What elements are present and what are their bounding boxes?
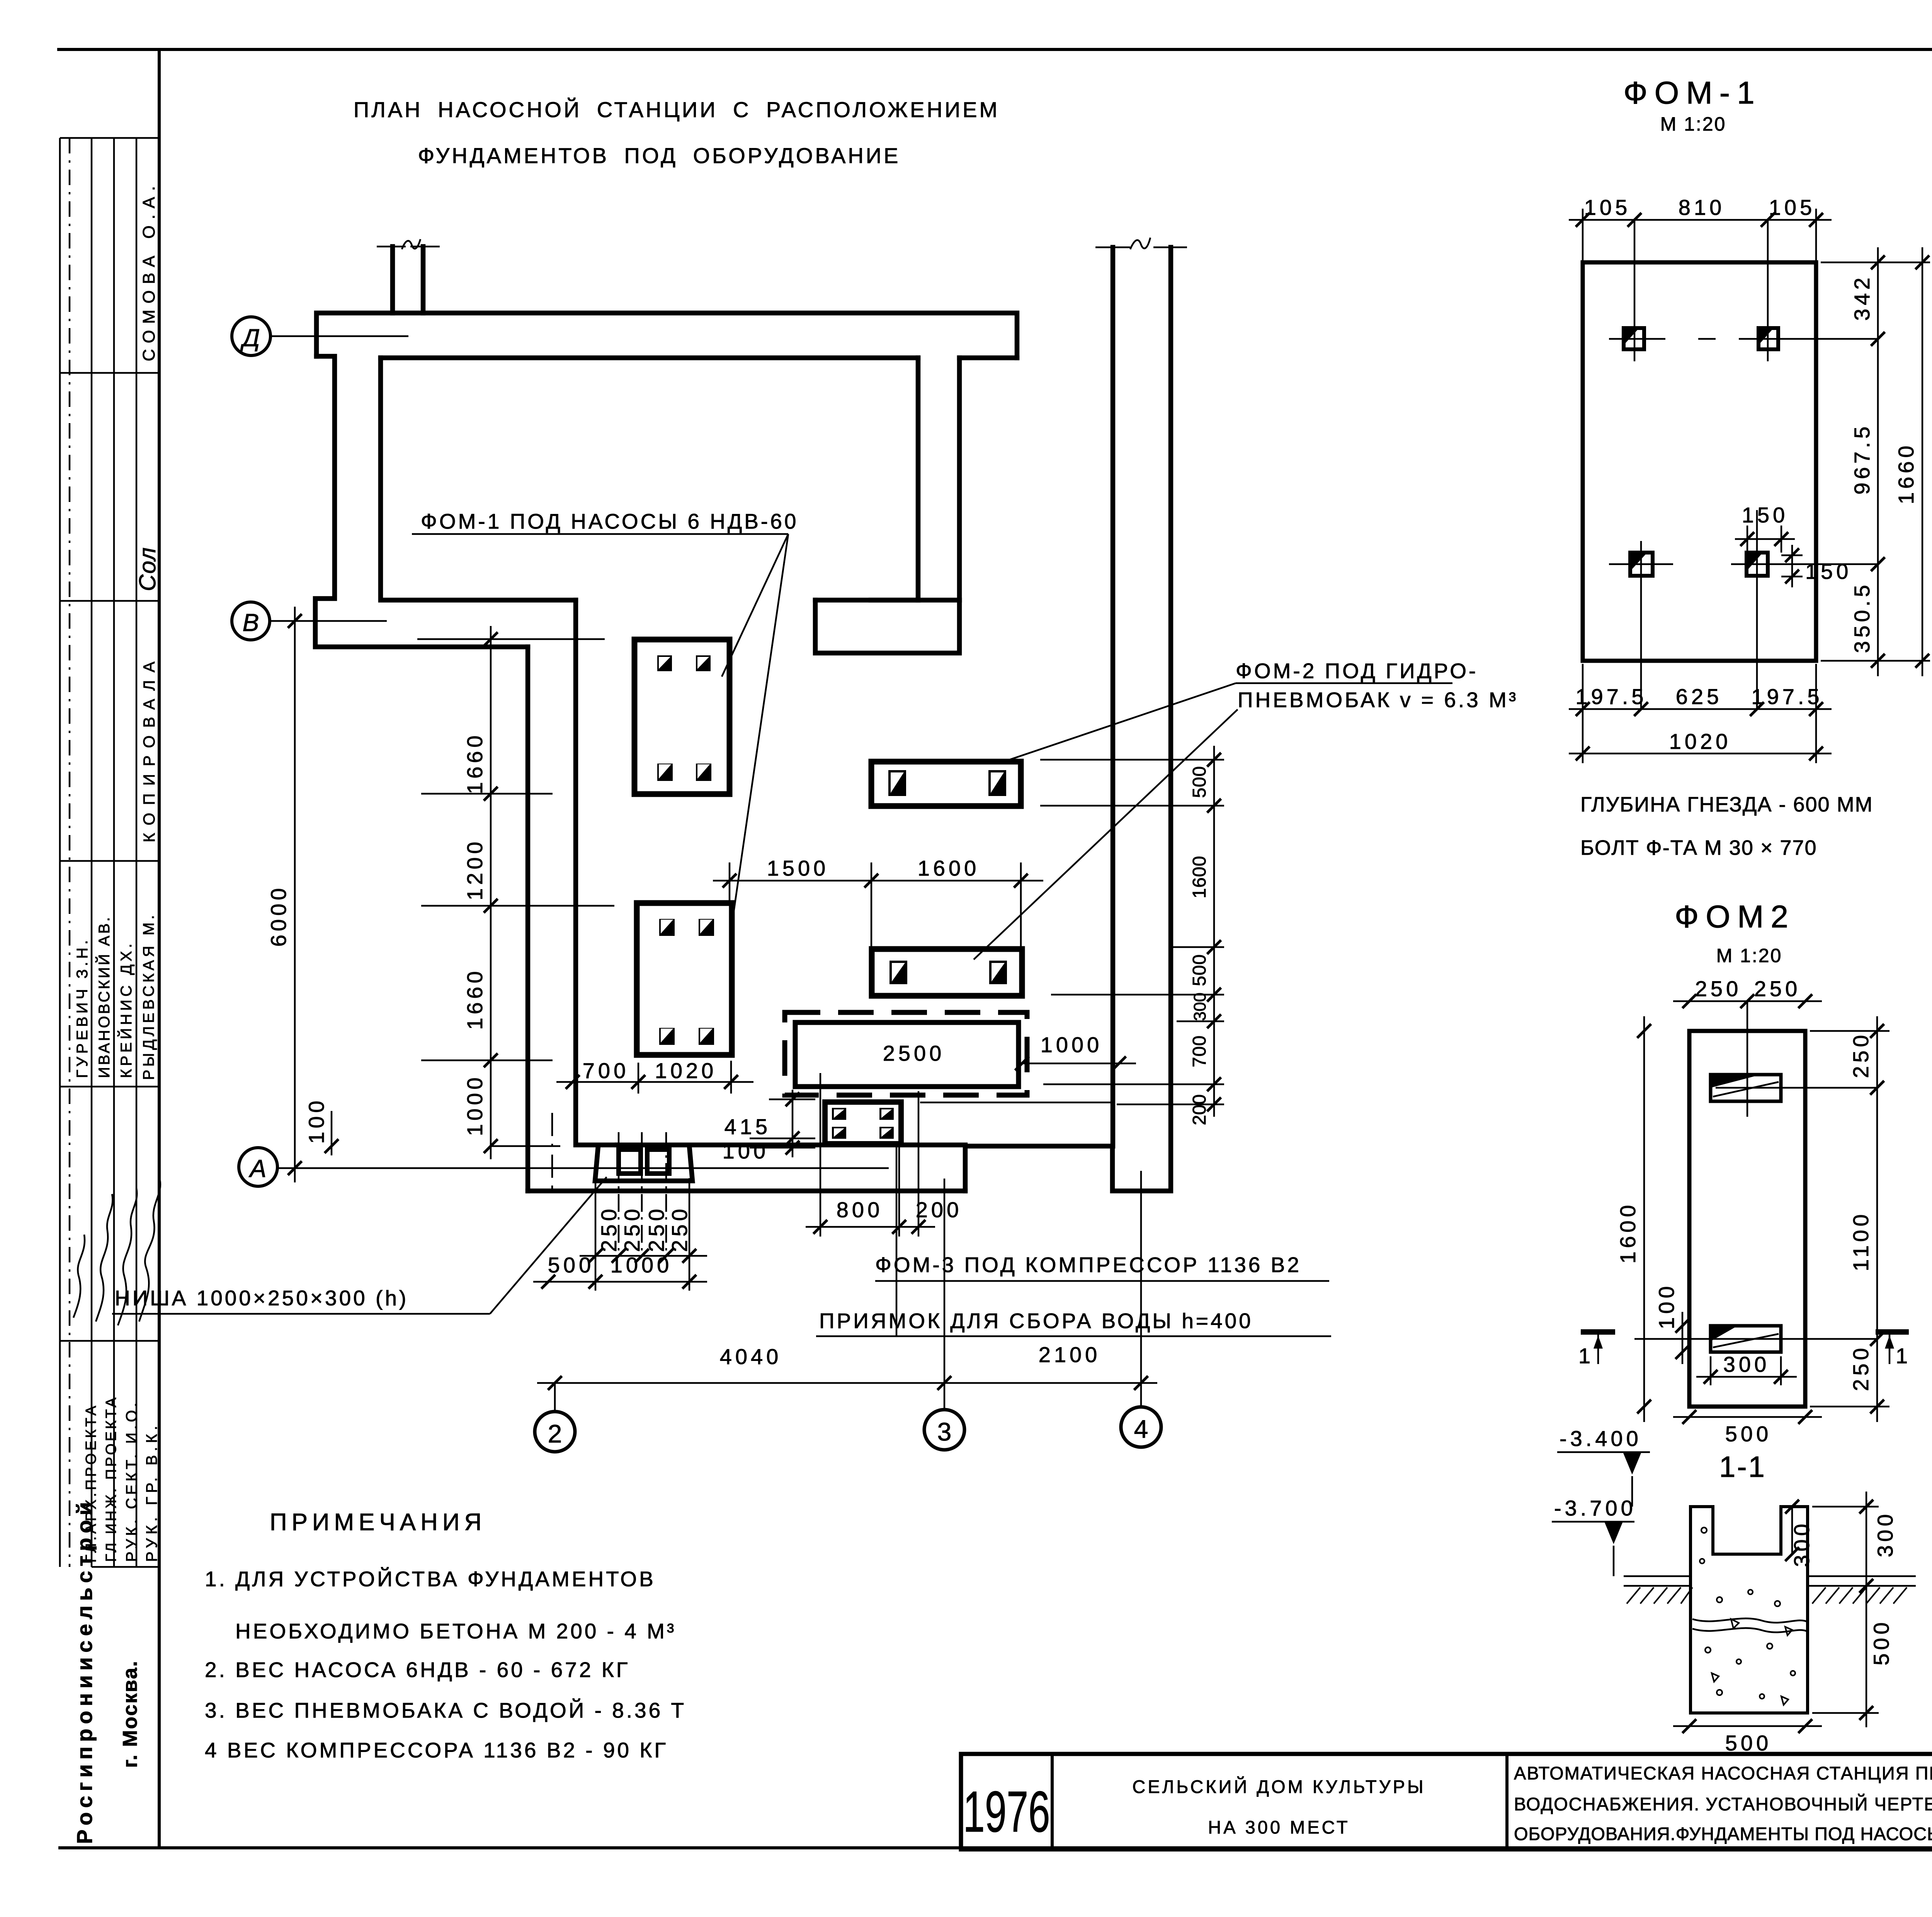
small 100 tick at axis A wall (331, 1111, 333, 1155)
svg-text:300: 300 (1723, 1352, 1770, 1376)
6000 chain (B to A) (294, 607, 296, 1182)
svg-text:300: 300 (1789, 1521, 1814, 1567)
svg-text:3: 3 (937, 1417, 952, 1446)
break squiggle inside (1692, 1618, 1806, 1623)
svg-text:200: 200 (1189, 1094, 1210, 1125)
svg-text:1: 1 (1578, 1344, 1594, 1368)
bolt axis lines top (1609, 338, 1665, 340)
bolt top-left (1624, 328, 1644, 349)
niche square 2 (647, 1150, 669, 1174)
left inner chain 1660/1200/1660/1000 (490, 626, 492, 1159)
svg-text:1660: 1660 (1894, 442, 1918, 504)
bottom 500 dim (1673, 1725, 1822, 1727)
svg-text:1500: 1500 (767, 856, 829, 880)
svg-text:100: 100 (304, 1097, 328, 1144)
svg-text:150: 150 (1742, 503, 1788, 527)
main rect (1689, 1031, 1805, 1407)
middle wall band (column 3 zone) left line (916, 358, 921, 600)
niche square 1 (619, 1150, 641, 1174)
svg-text:Д: Д (240, 324, 260, 352)
svg-text:415: 415 (724, 1114, 771, 1139)
svg-text:СЕЛЬСКИЙ ДОМ КУЛЬТУРЫ: СЕЛЬСКИЙ ДОМ КУЛЬТУРЫ (1132, 1776, 1425, 1797)
column axis circle 3 (924, 1410, 964, 1450)
foundation FOM-1 block A (634, 640, 730, 794)
dim 150 at bottom-right bolt (1747, 526, 1748, 553)
svg-text:КРЕЙНИС ДХ.: КРЕЙНИС ДХ. (117, 941, 135, 1078)
top dim chain 105 810 105 (1569, 219, 1832, 221)
doorway recess at axis A (965, 247, 1171, 1191)
bolt axis lines bottom (1609, 563, 1673, 565)
pit ledge line (920, 1102, 1114, 1104)
svg-text:500: 500 (1725, 1422, 1772, 1446)
right chain 250/1100/250 (1876, 1016, 1878, 1422)
outer chain 1660 (1922, 247, 1923, 676)
svg-text:А: А (248, 1155, 267, 1182)
break squiggle pilaster (402, 239, 420, 249)
svg-text:350.5: 350.5 (1850, 582, 1874, 653)
wall pier column2 band left line (526, 647, 531, 1191)
svg-text:ФОМ-1: ФОМ-1 (1623, 75, 1761, 111)
svg-text:1100: 1100 (1849, 1211, 1873, 1271)
svg-text:1000: 1000 (463, 1074, 487, 1136)
svg-text:500: 500 (1189, 954, 1210, 986)
svg-text:1660: 1660 (463, 732, 487, 794)
svg-text:2: 2 (548, 1419, 562, 1448)
4040 2100 chain (537, 1382, 1157, 1384)
svg-text:4 ВЕС КОМПРЕССОРА 1136: 4 ВЕС КОМПРЕССОРА 1136 В2 - 90 КГ (205, 1738, 668, 1762)
top dim 250 250 (1673, 1000, 1822, 1002)
svg-text:ПЛАН НАСОСНОЙ СТАНЦИИ С: ПЛАН НАСОСНОЙ СТАНЦИИ С РАСПОЛОЖЕНИЕМ (354, 97, 1000, 122)
top wall inner edge left part (381, 356, 918, 361)
niche footing trapezoid (595, 1146, 692, 1181)
pit inner solid rectangle 2500 (795, 1022, 1019, 1087)
svg-text:КОПИРОВАЛА: КОПИРОВАЛА (140, 654, 158, 842)
foundation body below (1689, 1573, 1692, 1713)
svg-text:800: 800 (837, 1197, 883, 1222)
svg-text:500: 500 (548, 1253, 594, 1277)
top wall band outer edge (axis Д) (316, 313, 1017, 358)
main slab rectangle (1583, 262, 1816, 661)
700 1020 chain (556, 1081, 753, 1083)
svg-text:Сол: Сол (134, 547, 160, 591)
svg-text:НЕОБХОДИМО БЕТОНА М 200: НЕОБХОДИМО БЕТОНА М 200 - 4 М³ (235, 1619, 676, 1643)
left wall outer edge with pilaster steps (315, 356, 528, 647)
svg-text:Росгипрониисельстрой: Росгипрониисельстрой (72, 1497, 97, 1844)
svg-text:ФОМ-1 ПОД НАСОСЫ 6 НДВ-60: ФОМ-1 ПОД НАСОСЫ 6 НДВ-60 (421, 509, 798, 533)
TITLE BLOCK (961, 1754, 1932, 1891)
svg-text:3. ВЕС ПНЕВМОБАКА С ВОДО: 3. ВЕС ПНЕВМОБАКА С ВОДОЙ - 8.36 Т (205, 1698, 686, 1722)
left inner border (thick) (158, 49, 161, 1848)
concrete dots (1700, 1527, 1795, 1705)
top border (59, 48, 1932, 51)
svg-text:625: 625 (1676, 684, 1722, 709)
lower slot (1711, 1326, 1781, 1352)
svg-text:ПРИМЕЧАНИЯ: ПРИМЕЧАНИЯ (270, 1509, 486, 1536)
svg-text:ПРИЯМОК ДЛЯ СБОРА ВОДЫ h=4: ПРИЯМОК ДЛЯ СБОРА ВОДЫ h=400 (819, 1309, 1253, 1333)
svg-text:250: 250 (1695, 976, 1742, 1001)
svg-text:197.5: 197.5 (1575, 684, 1647, 709)
svg-text:250: 250 (667, 1206, 692, 1252)
svg-text:ГЛУБИНА ГНЕЗДА - 600 ММ: ГЛУБИНА ГНЕЗДА - 600 ММ (1580, 793, 1873, 816)
svg-text:105: 105 (1769, 195, 1815, 219)
left wall inner edge (381, 358, 576, 600)
svg-text:250: 250 (644, 1206, 668, 1252)
axis B circle (232, 602, 270, 640)
foundation FOM-3 (825, 1102, 901, 1144)
wall pier stub at axis B (815, 600, 959, 653)
DETAIL FOM2 + section 1-1 (1552, 899, 1916, 1755)
svg-text:250: 250 (1849, 1345, 1873, 1391)
svg-text:700: 700 (1189, 1035, 1210, 1067)
svg-text:2100: 2100 (1039, 1342, 1101, 1367)
svg-text:-3.400: -3.400 (1560, 1426, 1642, 1451)
svg-text:100: 100 (723, 1139, 769, 1163)
right chain 342/967.5/350.5 (1877, 247, 1879, 676)
PLAN FOUNDATIONS (634, 640, 1136, 1144)
svg-text:СОМОВА О.А.: СОМОВА О.А. (139, 180, 158, 361)
1500 1600 chain (713, 880, 1043, 882)
svg-text:1200: 1200 (463, 838, 487, 900)
svg-text:4: 4 (1134, 1415, 1148, 1443)
PLAN WALLS (315, 238, 1187, 1191)
right wall band left line (1111, 247, 1116, 1146)
300 dim under slot (1710, 1356, 1712, 1385)
svg-text:250: 250 (1754, 976, 1801, 1001)
bottom chain 197.5 625 197.5 (1569, 708, 1832, 710)
svg-text:500: 500 (1725, 1731, 1772, 1755)
axis D circle (232, 317, 270, 356)
pit dashed rectangle (priyamok) (785, 1012, 1027, 1095)
svg-text:500: 500 (1189, 766, 1210, 798)
foundation FOM-1 block B (637, 903, 732, 1055)
svg-text:100: 100 (1654, 1283, 1679, 1329)
svg-text:ИВАНОВСКИЙ АВ.: ИВАНОВСКИЙ АВ. (95, 915, 113, 1078)
section mark 1 right (1876, 1329, 1909, 1335)
100 dim at lower slot (1682, 1312, 1684, 1364)
svg-text:ПНЕВМОБАК v = 6.3 М³: ПНЕВМОБАК v = 6.3 М³ (1238, 688, 1518, 712)
svg-text:ФОМ2: ФОМ2 (1675, 899, 1795, 934)
svg-text:250: 250 (1849, 1032, 1873, 1078)
svg-text:105: 105 (1584, 195, 1631, 219)
PLAN AXES (232, 317, 1161, 1452)
svg-text:1020: 1020 (655, 1058, 717, 1083)
column axis circle 2 (535, 1412, 575, 1452)
floor slab lines (1624, 1575, 1690, 1577)
inner 300 socket depth (1791, 1507, 1793, 1554)
800 200 chain under FOM-3 (806, 1226, 935, 1228)
bottom 500 (1673, 1416, 1822, 1418)
section body: socket U (1690, 1507, 1808, 1573)
svg-text:АВТОМАТИЧЕСКАЯ НАСОСНАЯ СТАН: АВТОМАТИЧЕСКАЯ НАСОСНАЯ СТАНЦИЯ ПРОТИВОП… (1514, 1763, 1932, 1783)
bottom wall inner edge with niche (617, 1143, 965, 1148)
svg-text:ФОМ-3 ПОД КОМПРЕССОР 1136: ФОМ-3 ПОД КОМПРЕССОР 1136 В2 (875, 1253, 1301, 1277)
svg-text:1600: 1600 (1189, 856, 1210, 898)
ground hatch left (1627, 1587, 1907, 1604)
svg-text:6000: 6000 (266, 885, 291, 947)
svg-text:1020: 1020 (1669, 729, 1731, 754)
svg-text:1: 1 (1896, 1344, 1911, 1368)
svg-text:810: 810 (1679, 195, 1725, 219)
left chain 1600 (1643, 1016, 1645, 1422)
svg-text:-3.700: -3.700 (1554, 1496, 1636, 1520)
door jamb tick at middle band (871, 598, 918, 603)
bottom border (60, 1846, 1932, 1849)
svg-text:М 1:20: М 1:20 (1716, 945, 1782, 966)
svg-text:В: В (243, 609, 259, 636)
svg-text:М 1:20: М 1:20 (1660, 113, 1726, 135)
svg-text:1976: 1976 (963, 1779, 1050, 1844)
svg-text:г. Москва.: г. Москва. (119, 1660, 141, 1768)
svg-text:150: 150 (1805, 559, 1852, 583)
sidebar stamp table (60, 138, 160, 1844)
svg-text:ФУНДАМЕНТОВ ПОД ОБОРУДОВ: ФУНДАМЕНТОВ ПОД ОБОРУДОВАНИЕ (418, 143, 901, 168)
svg-text:197.5: 197.5 (1751, 684, 1823, 709)
section mark 1 left (1581, 1329, 1615, 1335)
svg-text:500: 500 (1869, 1619, 1893, 1665)
break squiggle right band (1130, 238, 1150, 249)
svg-text:РЫДЛЕВСКАЯ М.: РЫДЛЕВСКАЯ М. (140, 912, 157, 1080)
compressor pad outline (820, 1073, 918, 1143)
main drawing title (354, 97, 1000, 168)
svg-text:НИША 1000×250×300 (h): НИША 1000×250×300 (h) (115, 1286, 408, 1310)
svg-text:1660: 1660 (463, 968, 487, 1030)
svg-text:967.5: 967.5 (1850, 423, 1874, 495)
svg-text:4040: 4040 (720, 1344, 782, 1369)
right chain 300/500 (1866, 1492, 1867, 1727)
FOM-1 A bolt squares (657, 655, 672, 671)
415 100 small chain near FOM-3 (792, 1090, 794, 1157)
NOTES (205, 1509, 686, 1762)
center axis (1747, 1001, 1748, 1117)
upper slot (1711, 1075, 1781, 1101)
svg-text:НА 300 МЕСТ: НА 300 МЕСТ (1208, 1817, 1350, 1837)
svg-text:ФОМ-2 ПОД ГИДРО-: ФОМ-2 ПОД ГИДРО- (1236, 659, 1478, 683)
PLAN LABELS (112, 509, 1518, 1336)
svg-text:1000: 1000 (611, 1253, 673, 1277)
foundation FOM-2 block 2 (872, 949, 1022, 996)
svg-text:300: 300 (1190, 993, 1209, 1021)
dim line 1000 (1019, 1063, 1136, 1065)
bolt bottom-right (1747, 553, 1768, 576)
foundation FOM-2 block 1 (871, 762, 1021, 806)
svg-text:342: 342 (1850, 274, 1874, 321)
svg-text:1. ДЛЯ УСТРОЙСТВА ФУНДАМ: 1. ДЛЯ УСТРОЙСТВА ФУНДАМЕНТОВ (205, 1567, 656, 1591)
top pilaster chimney lines (390, 247, 395, 313)
pilaster break caps (377, 246, 406, 248)
svg-text:РУК. СЕКТ. И.О.: РУК. СЕКТ. И.О. (123, 1400, 140, 1562)
top wall inner edge right part (959, 356, 1017, 361)
svg-text:1600: 1600 (918, 856, 980, 880)
svg-text:ОБОРУДОВАНИЯ.ФУНДАМЕНТЫ ПОД НА: ОБОРУДОВАНИЯ.ФУНДАМЕНТЫ ПОД НАСОСЫ,ПНЕВМ… (1514, 1823, 1932, 1844)
svg-text:250: 250 (597, 1206, 621, 1252)
svg-text:1000: 1000 (1041, 1032, 1103, 1057)
svg-text:300: 300 (1873, 1511, 1897, 1557)
svg-text:200: 200 (916, 1197, 962, 1222)
bolt bottom-left (1630, 553, 1653, 576)
middle wall band right line (957, 358, 962, 600)
svg-text:РУК. ГР. В.К.: РУК. ГР. В.К. (143, 1422, 160, 1562)
PLAN DIMENSIONS (266, 607, 1224, 1390)
right wall band top break caps (1095, 247, 1130, 248)
svg-text:250: 250 (620, 1206, 644, 1252)
250x4 niche chain (580, 1255, 707, 1257)
leader vertical from FOM-3 to labels (896, 1145, 898, 1336)
bolt top-right (1759, 328, 1778, 349)
500 1000 chain (533, 1281, 707, 1283)
svg-text:1600: 1600 (1616, 1201, 1640, 1264)
svg-text:700: 700 (583, 1058, 629, 1083)
bottom chain 1020 (1569, 753, 1832, 755)
bottom wall outer edge left of doorway (528, 1189, 965, 1194)
DETAIL FOM-1 (1569, 75, 1930, 859)
axis A circle (239, 1148, 277, 1186)
svg-text:ВОДОСНАБЖЕНИЯ. УСТАНОВОЧНЫЙ Ч: ВОДОСНАБЖЕНИЯ. УСТАНОВОЧНЫЙ ЧЕРТЕЖ С РАС… (1514, 1794, 1932, 1814)
column axis circle 4 (1121, 1407, 1161, 1447)
svg-text:2500: 2500 (883, 1041, 945, 1065)
svg-text:2. ВЕС НАСОСА 6НДВ - 60: 2. ВЕС НАСОСА 6НДВ - 60 - 672 КГ (205, 1658, 630, 1682)
svg-text:1-1: 1-1 (1719, 1451, 1766, 1483)
wall pier column2 band right line (576, 600, 617, 1145)
dash-dot centerlines of niche (618, 1132, 620, 1256)
right chain 500/1600/500/300/700/200 (1213, 746, 1215, 1117)
svg-text:ГЛ ИНЖ. ПРОЕКТА: ГЛ ИНЖ. ПРОЕКТА (103, 1395, 119, 1562)
svg-text:БОЛТ Ф-ТА М 30 × 770: БОЛТ Ф-ТА М 30 × 770 (1580, 836, 1817, 859)
svg-text:ГУРЕВИЧ З.Н.: ГУРЕВИЧ З.Н. (74, 937, 91, 1078)
